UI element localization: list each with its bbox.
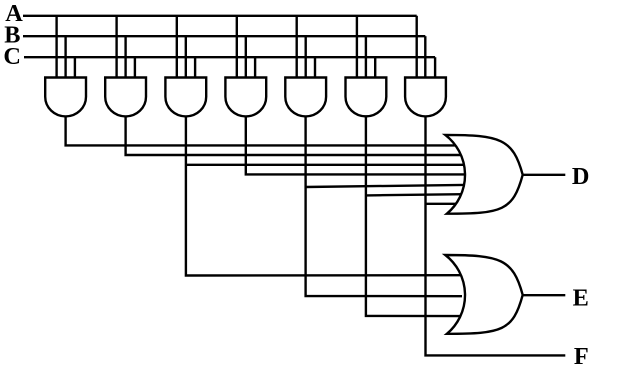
AND gate U2: [105, 78, 146, 117]
wire C tap to U6: [374, 57, 376, 77]
AND gate U3: [165, 78, 206, 117]
wire C tap to U2: [134, 57, 136, 77]
wire rail C: [24, 56, 435, 58]
svg-text:D: D: [572, 163, 590, 190]
wire B tap to U7: [424, 36, 426, 77]
svg-text:C: C: [3, 43, 21, 70]
wire A tap to U2: [115, 16, 117, 78]
wire A tap to U3: [176, 16, 178, 78]
wire U1 output to OR D: [66, 114, 464, 145]
AND gate U6: [346, 78, 387, 117]
wire B tap to U2: [124, 36, 126, 77]
wire B tap to U4: [245, 36, 247, 77]
svg-text:F: F: [574, 343, 589, 370]
wire OR D output: [523, 174, 566, 176]
wire rail A: [23, 15, 417, 17]
AND gate U5: [285, 78, 326, 117]
AND gate U4: [225, 78, 266, 117]
wire A tap to U5: [296, 16, 298, 78]
wire U6 branch to OR D: [366, 194, 464, 195]
wire U5 output down to OR E: [306, 114, 462, 296]
wire C tap to U7: [434, 57, 436, 77]
wire U5 branch to OR D: [306, 185, 464, 187]
wire B tap to U3: [185, 36, 187, 77]
wire A tap to U1: [55, 16, 57, 78]
wire U7 branch to OR D: [426, 203, 465, 205]
wire U2 output to OR D: [126, 114, 464, 155]
wire B tap to U6: [365, 36, 367, 77]
wire rail B: [23, 35, 425, 37]
svg-text:E: E: [573, 285, 589, 312]
wire A tap to U6: [356, 16, 358, 78]
wire U3 branch to OR D: [186, 164, 464, 166]
wire C tap to U5: [314, 57, 316, 77]
wire A tap to U7: [416, 16, 418, 78]
wire B tap to U5: [305, 36, 307, 77]
AND gate U7: [405, 78, 446, 117]
wire U7 output down to F: [426, 114, 566, 355]
wire C tap to U1: [74, 57, 76, 77]
wire U4 output to OR D: [246, 114, 464, 174]
wire B tap to U1: [64, 36, 66, 77]
OR gate D: [445, 135, 522, 214]
wire OR E output: [523, 294, 566, 296]
wire C tap to U3: [194, 57, 196, 77]
wire U6 output down to OR E: [366, 114, 462, 316]
wire U3 output down to OR E: [186, 114, 462, 276]
wire C tap to U4: [254, 57, 256, 77]
OR gate E: [445, 255, 522, 334]
wire A tap to U4: [236, 16, 238, 78]
AND gate U1: [45, 78, 86, 117]
